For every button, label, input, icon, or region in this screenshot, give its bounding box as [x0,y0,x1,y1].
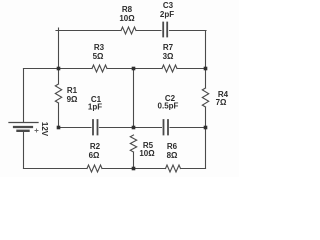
wire right vertical [205,31,207,169]
svg-text:R1: R1 [67,86,78,95]
battery polarity plus [35,129,39,133]
svg-text:R6: R6 [167,142,178,151]
junction node row3-mid [132,126,136,130]
svg-text:R7: R7 [163,43,174,52]
capacitor C3 [163,23,167,37]
svg-text:0.5pF: 0.5pF [158,102,179,111]
wire left outer vertical [23,69,25,169]
wire middle vertical [133,69,135,169]
wire row3 [59,127,206,129]
junction node row2-right [204,67,208,71]
svg-text:8Ω: 8Ω [167,151,178,160]
resistor R6 [166,165,181,172]
svg-text:10Ω: 10Ω [139,149,155,158]
resistor R4 [202,88,208,107]
svg-text:9Ω: 9Ω [67,95,78,104]
svg-text:7Ω: 7Ω [216,98,227,107]
resistor R1 [55,84,61,103]
wire left inner vertical [58,28,60,128]
wire bottom row [24,168,206,170]
resistor R2 [87,165,102,172]
svg-text:6Ω: 6Ω [89,151,100,160]
resistor R7 [162,65,177,72]
svg-text:R3: R3 [94,43,105,52]
resistor R5 [130,135,136,152]
resistor R8 [121,27,136,34]
junction node bottom-mid [132,167,136,171]
battery B1 12V [9,123,38,131]
svg-text:12V: 12V [40,122,49,137]
junction node row3-left [57,126,61,130]
svg-text:R8: R8 [122,5,133,14]
junction node row3-right [204,126,208,130]
junction node row2-left [57,67,61,71]
capacitor C2 [164,120,169,135]
junction node row2-mid [132,67,136,71]
svg-text:2pF: 2pF [160,10,174,19]
svg-text:1pF: 1pF [88,103,102,112]
capacitor C1 [93,120,98,135]
wire row2 [24,68,206,70]
svg-text:10Ω: 10Ω [119,14,135,23]
svg-text:3Ω: 3Ω [163,52,174,61]
svg-text:R2: R2 [90,142,101,151]
resistor R3 [92,65,107,72]
svg-text:C3: C3 [163,1,174,10]
wire top row [56,30,206,32]
svg-text:5Ω: 5Ω [93,52,104,61]
